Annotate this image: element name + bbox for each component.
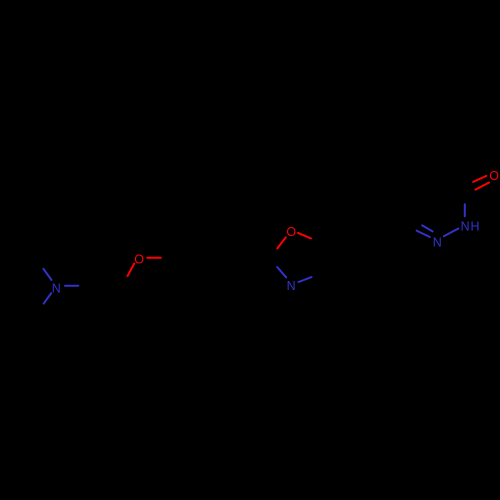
N-CH2 bond (right blue half) xyxy=(65,285,78,287)
C6=N1 double bond main line (blue half) xyxy=(417,231,430,237)
C3=O double bond upper line (red half) xyxy=(473,176,486,182)
svg-text:O: O xyxy=(489,169,499,183)
CH2-O bond (down-left red half) xyxy=(128,264,135,277)
N3=C2 bond (up-left blue half) xyxy=(277,267,286,277)
O1-C2 bond (down-left red half) xyxy=(277,237,286,248)
N2-C3 bond (blue half) xyxy=(464,204,466,216)
svg-text:N: N xyxy=(52,281,61,295)
svg-text:N: N xyxy=(287,279,296,293)
C3=O double bond lower line (red half) xyxy=(475,183,489,190)
N1-N2 bond xyxy=(444,229,459,237)
svg-text:N: N xyxy=(433,236,442,250)
svg-text:O: O xyxy=(286,225,296,239)
svg-text:O: O xyxy=(134,252,144,266)
O1-C7a bond (right red half) xyxy=(298,233,311,239)
N-CH3 bond (upper-left blue half) xyxy=(43,269,51,280)
N-CH3 bond (lower-left blue half) xyxy=(44,293,52,303)
O-phenyl bond (right red half) xyxy=(147,257,161,259)
svg-text:N: N xyxy=(461,219,470,233)
N3-C3a bond (right blue half) xyxy=(299,277,312,282)
C6=N1 double bond inner line (blue half) xyxy=(422,225,432,231)
svg-text:H: H xyxy=(470,219,479,233)
